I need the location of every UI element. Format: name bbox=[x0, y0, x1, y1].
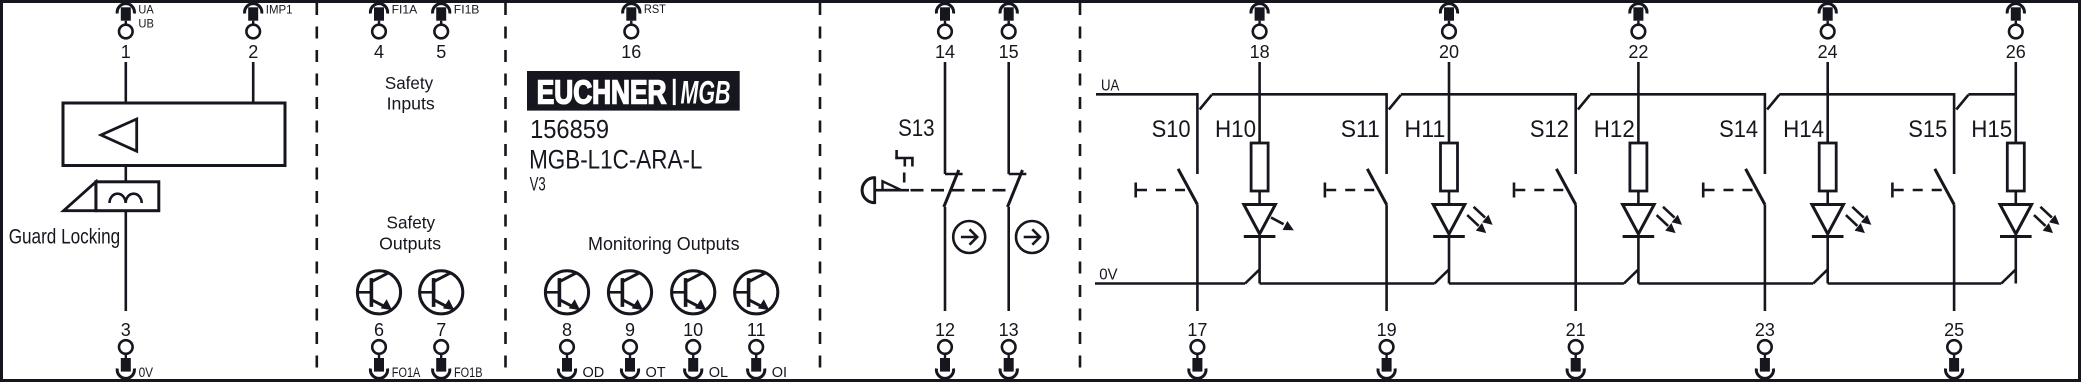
svg-text:S11: S11 bbox=[1341, 116, 1380, 143]
LED H11 emission arrows bbox=[1474, 207, 1492, 224]
terminal 9 (bottom) bbox=[621, 320, 665, 381]
terminal 11 (bottom) bbox=[747, 320, 787, 381]
switch S15 actuator link (dashed) bbox=[1894, 189, 1942, 192]
guard locking flag triangle bbox=[64, 182, 96, 211]
switch S10 blade bbox=[1178, 169, 1197, 205]
LED H11 triangle bbox=[1433, 205, 1465, 235]
svg-text:H15: H15 bbox=[1971, 116, 2012, 143]
svg-text:Inputs: Inputs bbox=[387, 94, 435, 114]
svg-text:MGB-L1C-ARA-L: MGB-L1C-ARA-L bbox=[529, 144, 702, 174]
svg-text:S12: S12 bbox=[1530, 116, 1569, 143]
svg-text:S13: S13 bbox=[898, 115, 935, 142]
LED H14 cathode bar bbox=[1812, 235, 1844, 238]
mechanical link (dashed) bbox=[911, 189, 1014, 192]
triangle symbol inside module box bbox=[101, 119, 137, 151]
UA rail segment bbox=[1779, 93, 1954, 96]
LED H15 triangle bbox=[2000, 205, 2032, 235]
UA rail jumper diagonal bbox=[1200, 95, 1212, 110]
wire module box to solenoid bbox=[125, 166, 128, 182]
terminal 14 (top) bbox=[935, 4, 955, 62]
svg-text:13: 13 bbox=[999, 320, 1019, 340]
switch S11 wire to terminal 19 bbox=[1385, 205, 1388, 312]
terminal 17 (bottom) bbox=[1187, 320, 1207, 379]
svg-text:4: 4 bbox=[374, 42, 384, 62]
terminal 26 (top) bbox=[2006, 4, 2026, 62]
terminal 18 (top) bbox=[1250, 4, 1270, 62]
switch S10 wire to terminal 17 bbox=[1196, 205, 1199, 312]
svg-text:Monitoring Outputs: Monitoring Outputs bbox=[588, 233, 740, 254]
0V rail segment bbox=[1095, 282, 1245, 285]
svg-text:FI1A: FI1A bbox=[392, 4, 418, 16]
actuator wedge bbox=[883, 181, 902, 190]
terminal 1 (top) bbox=[117, 4, 154, 62]
wire LED H15 to 0V rail bbox=[2015, 237, 2018, 284]
svg-text:24: 24 bbox=[1818, 42, 1838, 62]
svg-text:Outputs: Outputs bbox=[379, 234, 441, 254]
S13 contact A blade bbox=[944, 170, 959, 207]
svg-text:20: 20 bbox=[1439, 42, 1459, 62]
wire terminal 1 to module box bbox=[125, 62, 128, 103]
svg-text:UB: UB bbox=[138, 19, 154, 31]
wire terminal 24 to resistor bbox=[1826, 62, 1829, 143]
UA rail segment bbox=[1212, 93, 1387, 96]
svg-text:H14: H14 bbox=[1783, 116, 1824, 143]
transistor output 8 bbox=[545, 271, 588, 314]
wire resistor to LED H15 bbox=[2015, 191, 2018, 205]
0V rail segment bbox=[1828, 282, 2002, 285]
svg-text:S15: S15 bbox=[1908, 116, 1947, 143]
switch S11 blade bbox=[1367, 169, 1386, 205]
section separator (dashed) bbox=[504, 3, 507, 379]
wire terminal 18 to resistor bbox=[1258, 62, 1261, 143]
terminal 22 (top) bbox=[1628, 4, 1648, 62]
section separator (dashed) bbox=[819, 3, 822, 379]
switch S12 top feed wire bbox=[1574, 93, 1577, 174]
svg-text:11: 11 bbox=[747, 320, 766, 340]
LED H10 emission arrows bbox=[1271, 218, 1293, 230]
switch S10 actuator end cap bbox=[1134, 183, 1137, 198]
wire terminal 20 to resistor bbox=[1448, 62, 1451, 143]
0V rail jumper diagonal bbox=[2001, 270, 2015, 284]
LED H10 triangle bbox=[1244, 205, 1276, 235]
switch S11 top feed wire bbox=[1385, 93, 1388, 174]
terminal 24 (top) bbox=[1818, 4, 1838, 62]
0V rail jumper diagonal bbox=[1435, 270, 1449, 284]
svg-text:FO1B: FO1B bbox=[454, 365, 483, 380]
UA rail segment bbox=[1096, 93, 1197, 96]
UA rail jumper diagonal bbox=[1956, 95, 1968, 110]
terminal 20 (top) bbox=[1439, 4, 1459, 62]
wire terminal 2 to module box bbox=[252, 62, 255, 103]
wire resistor to LED H10 bbox=[1258, 191, 1261, 205]
svg-text:23: 23 bbox=[1755, 320, 1775, 340]
wire resistor to LED H12 bbox=[1637, 191, 1640, 205]
wire terminal 26 to resistor bbox=[2015, 62, 2018, 143]
wire LED H10 to 0V rail bbox=[1258, 237, 1261, 284]
svg-text:S14: S14 bbox=[1719, 116, 1758, 143]
transistor output 9 bbox=[608, 271, 651, 314]
switch S14 actuator end cap bbox=[1702, 183, 1705, 198]
svg-text:9: 9 bbox=[625, 320, 635, 340]
svg-text:10: 10 bbox=[683, 320, 703, 340]
emergency stop mushroom head bbox=[862, 178, 875, 203]
terminal 16 (top) bbox=[621, 4, 666, 62]
terminal 21 (bottom) bbox=[1566, 320, 1586, 379]
UA rail segment bbox=[1590, 93, 1765, 96]
svg-text:156859: 156859 bbox=[530, 114, 609, 144]
0V rail jumper diagonal bbox=[1245, 270, 1259, 284]
terminal 10 (bottom) bbox=[683, 320, 728, 381]
resistor of H15 bbox=[2007, 143, 2024, 191]
svg-text:7: 7 bbox=[436, 320, 446, 340]
solenoid coil humps bbox=[110, 194, 142, 203]
svg-text:FI1B: FI1B bbox=[454, 4, 480, 16]
0V rail jumper diagonal bbox=[1813, 270, 1827, 284]
resistor of H14 bbox=[1819, 143, 1836, 191]
svg-text:17: 17 bbox=[1187, 320, 1207, 340]
EUCHNER MGB logo bbox=[527, 71, 740, 111]
svg-text:MGB: MGB bbox=[681, 75, 731, 111]
LED H10 cathode bar bbox=[1244, 235, 1276, 238]
switch S14 wire to terminal 23 bbox=[1764, 205, 1767, 312]
switch S15 wire to terminal 25 bbox=[1953, 205, 1956, 312]
svg-text:16: 16 bbox=[621, 42, 641, 62]
S13 contact A seat bbox=[945, 173, 963, 176]
LED H12 emission arrows bbox=[1663, 207, 1681, 224]
LED H12 triangle bbox=[1623, 205, 1655, 235]
terminal 19 (bottom) bbox=[1377, 320, 1397, 379]
LED H14 triangle bbox=[1812, 205, 1844, 235]
wire solenoid to terminal 3 bbox=[125, 211, 128, 311]
UA rail jumper diagonal bbox=[1767, 95, 1779, 110]
switch S15 top feed wire bbox=[1953, 93, 1956, 174]
guard locking solenoid box bbox=[96, 182, 159, 211]
S13 contact B blade bbox=[1008, 170, 1023, 207]
terminal 13 (bottom) bbox=[999, 320, 1019, 379]
section separator (dashed) bbox=[315, 3, 318, 379]
wire terminal 22 to resistor bbox=[1637, 62, 1640, 143]
S13 contact B wire from terminal 15 bbox=[1007, 62, 1010, 174]
svg-text:Safety: Safety bbox=[387, 213, 436, 233]
wire LED H11 to 0V rail bbox=[1448, 237, 1451, 284]
wire resistor to LED H11 bbox=[1448, 191, 1451, 205]
LED H15 emission arrows bbox=[2040, 207, 2058, 224]
0V rail segment bbox=[1260, 282, 1435, 285]
svg-text:OI: OI bbox=[772, 365, 787, 381]
resistor of H10 bbox=[1251, 143, 1268, 191]
terminal 15 (top) bbox=[999, 4, 1019, 62]
svg-text:26: 26 bbox=[2006, 42, 2026, 62]
S13 contact B seat bbox=[1009, 173, 1027, 176]
UA rail jumper diagonal bbox=[1389, 95, 1401, 110]
svg-text:0V: 0V bbox=[139, 365, 154, 380]
LED H11 cathode bar bbox=[1433, 235, 1465, 238]
transistor output 6 bbox=[357, 271, 400, 314]
switch S15 blade bbox=[1935, 169, 1954, 205]
switch S10 top feed wire bbox=[1196, 93, 1199, 174]
svg-text:H11: H11 bbox=[1404, 116, 1445, 143]
terminal 7 (bottom) bbox=[433, 320, 483, 380]
actuation direction arrow (circled) bbox=[953, 221, 985, 253]
terminal 2 (top) bbox=[245, 4, 293, 62]
resistor of H12 bbox=[1630, 143, 1647, 191]
transistor output 10 bbox=[672, 271, 715, 314]
resistor of H11 bbox=[1441, 143, 1458, 191]
svg-text:FO1A: FO1A bbox=[392, 365, 421, 380]
section separator (dashed) bbox=[1079, 3, 1082, 379]
svg-text:22: 22 bbox=[1628, 42, 1648, 62]
svg-text:S10: S10 bbox=[1152, 116, 1191, 143]
switch S14 blade bbox=[1746, 169, 1765, 205]
svg-text:H12: H12 bbox=[1594, 116, 1635, 143]
wire resistor to LED H14 bbox=[1826, 191, 1829, 205]
LED H15 cathode bar bbox=[2000, 235, 2032, 238]
svg-text:Guard Locking: Guard Locking bbox=[9, 225, 121, 248]
switch S12 blade bbox=[1556, 169, 1575, 205]
svg-text:12: 12 bbox=[935, 320, 955, 340]
svg-text:UA: UA bbox=[1101, 78, 1120, 95]
wire LED H14 to 0V rail bbox=[1826, 237, 1829, 284]
svg-text:H10: H10 bbox=[1215, 116, 1256, 143]
svg-text:1: 1 bbox=[121, 42, 131, 62]
terminal 5 (top) bbox=[433, 4, 480, 62]
UA rail segment bbox=[1968, 93, 2015, 96]
svg-text:2: 2 bbox=[248, 42, 258, 62]
transistor output 7 bbox=[420, 271, 463, 314]
switch S14 top feed wire bbox=[1764, 93, 1767, 174]
svg-text:UA: UA bbox=[138, 5, 154, 17]
terminal 3 (bottom) bbox=[117, 320, 153, 380]
terminal 4 (top) bbox=[370, 4, 417, 62]
switch S12 wire to terminal 21 bbox=[1574, 205, 1577, 312]
transistor output 11 bbox=[735, 271, 778, 314]
switch S12 actuator link (dashed) bbox=[1515, 189, 1563, 192]
UA rail jumper diagonal bbox=[1578, 95, 1590, 110]
svg-text:8: 8 bbox=[562, 320, 572, 340]
terminal 23 (bottom) bbox=[1755, 320, 1775, 379]
S13 contact A wire from terminal 14 bbox=[944, 62, 947, 174]
svg-text:14: 14 bbox=[935, 42, 955, 62]
terminal 6 (bottom) bbox=[370, 320, 420, 380]
svg-text:V3: V3 bbox=[530, 174, 546, 195]
0V rail jumper diagonal bbox=[1624, 270, 1638, 284]
actuation direction arrow (circled) bbox=[1016, 221, 1048, 253]
svg-text:15: 15 bbox=[999, 42, 1019, 62]
svg-text:18: 18 bbox=[1250, 42, 1270, 62]
svg-text:RST: RST bbox=[644, 4, 666, 16]
0V rail segment bbox=[1638, 282, 1813, 285]
svg-text:21: 21 bbox=[1566, 320, 1586, 340]
svg-text:OT: OT bbox=[646, 365, 666, 381]
svg-text:Safety: Safety bbox=[385, 73, 433, 93]
switch S14 actuator link (dashed) bbox=[1705, 189, 1753, 192]
svg-text:25: 25 bbox=[1944, 320, 1964, 340]
svg-text:IMP1: IMP1 bbox=[266, 4, 293, 16]
switch S15 actuator end cap bbox=[1891, 183, 1894, 198]
LED H12 cathode bar bbox=[1623, 235, 1655, 238]
svg-text:0V: 0V bbox=[1099, 266, 1118, 283]
svg-text:OD: OD bbox=[583, 365, 605, 381]
svg-text:5: 5 bbox=[436, 42, 446, 62]
UA rail segment bbox=[1401, 93, 1576, 96]
LED H14 emission arrows bbox=[1852, 207, 1870, 224]
module box (control unit) bbox=[63, 103, 285, 166]
svg-text:6: 6 bbox=[374, 320, 384, 340]
terminal 8 (bottom) bbox=[558, 320, 604, 381]
svg-text:3: 3 bbox=[121, 320, 131, 340]
switch S11 actuator end cap bbox=[1324, 183, 1327, 198]
svg-text:EUCHNER: EUCHNER bbox=[537, 74, 667, 111]
svg-text:19: 19 bbox=[1377, 320, 1397, 340]
0V rail segment bbox=[1449, 282, 1624, 285]
switch S11 actuator link (dashed) bbox=[1326, 189, 1374, 192]
switch S12 actuator end cap bbox=[1513, 183, 1516, 198]
svg-text:OL: OL bbox=[709, 365, 728, 381]
actuator stem bbox=[875, 189, 909, 192]
terminal 25 (bottom) bbox=[1944, 320, 1964, 379]
switch S10 actuator link (dashed) bbox=[1137, 189, 1185, 192]
terminal 12 (bottom) bbox=[935, 320, 955, 379]
turn-to-release key symbol bbox=[895, 150, 913, 183]
S13 contact A wire to terminal 12 bbox=[944, 207, 947, 311]
wire LED H12 to 0V rail bbox=[1637, 237, 1640, 284]
S13 contact B wire to terminal 13 bbox=[1007, 207, 1010, 311]
